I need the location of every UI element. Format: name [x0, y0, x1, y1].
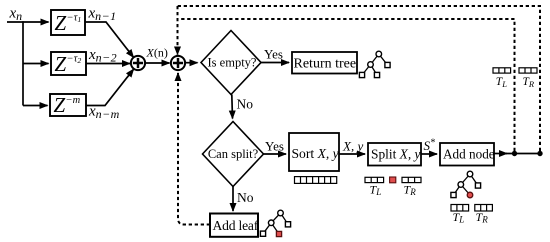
wire Z2 to sum1 [86, 63, 130, 65]
tree icon B root [260, 210, 290, 236]
wire branch to Z3 [23, 105, 48, 107]
delay block Z^-tau2 [51, 52, 86, 76]
data array T_L under Add node [451, 205, 469, 212]
tree icon A root [359, 51, 390, 77]
wire input top [7, 21, 49, 23]
process Return tree [292, 52, 357, 74]
wire Z3 to sum1 [86, 69, 134, 105]
svg-text:Can split?: Can split? [208, 147, 259, 161]
svg-text:No: No [237, 97, 254, 112]
svg-text:−m: −m [66, 95, 81, 106]
data array T_L under Split [365, 177, 384, 182]
process Sort X,y [289, 133, 340, 171]
svg-text:Z: Z [54, 93, 66, 117]
svg-text:TL: TL [496, 76, 507, 89]
wire Add node output [494, 153, 507, 155]
process Add leaf [210, 214, 259, 237]
wire input vertical branch [22, 21, 24, 105]
wire decision1 to decision2 [231, 95, 234, 119]
svg-text:Z: Z [55, 11, 67, 35]
svg-text:Sort X, y: Sort X, y [292, 146, 340, 161]
data array T_L top right [493, 68, 511, 73]
delay block Z^-m [50, 93, 86, 117]
wire decision1 to Return tree [261, 62, 289, 64]
svg-text:Add leaf: Add leaf [213, 218, 259, 233]
data array under Sort [295, 177, 337, 184]
junction node 2 [537, 151, 542, 156]
wire to junctions [505, 153, 540, 155]
svg-text:TR: TR [476, 210, 489, 225]
svg-text:TL: TL [370, 182, 382, 197]
data array T_R under Add node [475, 205, 493, 212]
svg-text:Yes: Yes [264, 47, 283, 62]
svg-text:−τ1: −τ1 [67, 13, 82, 25]
svg-text:TL: TL [453, 210, 465, 225]
tree icon C root [451, 171, 481, 198]
dashed feedback from Add leaf into sum2 bottom [178, 73, 210, 225]
process Add node [440, 143, 495, 166]
svg-text:X(n): X(n) [146, 45, 168, 59]
split point red cell [390, 177, 396, 183]
svg-text:Split X, y: Split X, y [371, 146, 421, 161]
wire decision2 to Add leaf [232, 187, 234, 212]
dashed feedback vertical into sum2 top [177, 6, 179, 55]
decision Is empty? [201, 31, 261, 95]
svg-text:Add node: Add node [443, 147, 495, 162]
summing junction S1 [131, 56, 145, 70]
svg-text:xn−1: xn−1 [88, 5, 117, 23]
wire Z1 to sum1 [85, 22, 134, 57]
svg-text:Return tree: Return tree [294, 57, 357, 72]
junction node 1 [512, 151, 517, 156]
decision Can split? [203, 122, 264, 187]
data array T_R top right [519, 68, 537, 73]
data array T_R under Split [402, 177, 421, 182]
wire branch to Z2 [23, 63, 49, 65]
svg-text:S*: S* [424, 138, 436, 154]
wire decision2 to Sort [264, 153, 287, 155]
wire Sort to Split [339, 153, 365, 155]
svg-text:Yes: Yes [265, 139, 284, 154]
svg-text:TR: TR [523, 76, 535, 89]
svg-text:X, y: X, y [342, 139, 363, 154]
svg-text:Is empty?: Is empty? [208, 56, 257, 70]
svg-text:−τ2: −τ2 [67, 53, 82, 65]
svg-text:No: No [237, 190, 254, 205]
delay block Z^-tau1 [51, 10, 85, 35]
dashed feedback outer loop [178, 6, 541, 151]
svg-text:xn−2: xn−2 [88, 47, 117, 65]
svg-text:Z: Z [55, 52, 67, 76]
wire sum1 to sum2 [145, 62, 170, 64]
wire sum2 to decision1 [185, 62, 198, 64]
svg-text:TR: TR [404, 182, 417, 197]
summing junction S2 [171, 56, 185, 70]
wire Split to Add node [421, 153, 437, 155]
process Split X,y [368, 143, 421, 166]
svg-text:xn: xn [9, 6, 23, 24]
dashed feedback inner loop [178, 19, 515, 151]
